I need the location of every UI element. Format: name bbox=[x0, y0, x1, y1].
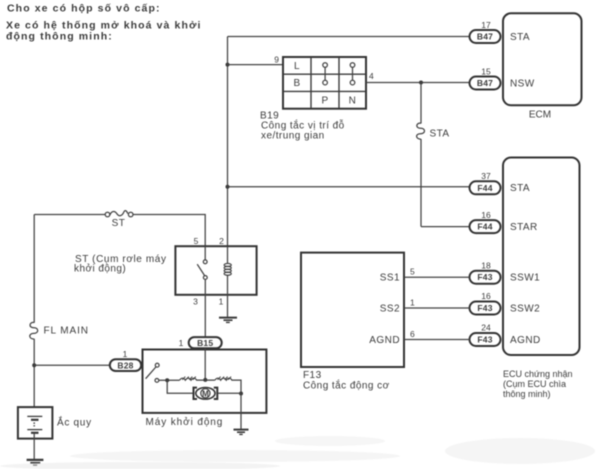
svg-text:STA: STA bbox=[510, 183, 530, 194]
svg-text:B: B bbox=[293, 78, 300, 89]
svg-text:9: 9 bbox=[274, 55, 279, 65]
B19 contact circles column N bbox=[350, 63, 355, 85]
ST relay box bbox=[175, 246, 256, 295]
svg-text:15: 15 bbox=[481, 67, 491, 77]
battery box bbox=[18, 407, 53, 439]
svg-text:F44: F44 bbox=[477, 183, 492, 193]
wire fusible link to battery bbox=[33, 339, 35, 417]
ground under starter bbox=[234, 430, 249, 435]
connector B47 pin 15 bbox=[470, 77, 501, 90]
wire coil1 node to motor bbox=[167, 380, 193, 393]
svg-text:24: 24 bbox=[481, 323, 491, 333]
wire main vertical STA bbox=[227, 37, 229, 247]
svg-text:SS2: SS2 bbox=[380, 303, 400, 314]
node junction at B19 pin 9 bbox=[226, 63, 230, 67]
svg-text:5: 5 bbox=[194, 236, 199, 246]
svg-text:ECM: ECM bbox=[529, 110, 551, 121]
connector B28 bbox=[110, 359, 141, 371]
node motor right bbox=[239, 392, 243, 396]
wire STAR branch lower bbox=[420, 139, 422, 227]
wire node to starter ground bbox=[240, 394, 242, 430]
wire relay pin 3 to B15 bbox=[204, 279, 206, 337]
svg-text:F43: F43 bbox=[477, 303, 492, 313]
connector F43 pin 16 bbox=[470, 302, 501, 315]
ECM box bbox=[503, 13, 582, 105]
wire motor to node bbox=[218, 392, 241, 394]
svg-text:Máy khởi động: Máy khởi động bbox=[146, 416, 224, 428]
svg-text:SS1: SS1 bbox=[380, 273, 400, 284]
node junction B28 branch bbox=[32, 363, 36, 367]
svg-text:1: 1 bbox=[123, 349, 128, 359]
svg-text:AGND: AGND bbox=[369, 335, 400, 346]
svg-text:SSW1: SSW1 bbox=[510, 273, 540, 284]
svg-text:1: 1 bbox=[219, 297, 224, 307]
svg-text:ECU chứng nhận: ECU chứng nhận bbox=[503, 369, 573, 379]
svg-text:M: M bbox=[202, 389, 209, 398]
svg-text:STA: STA bbox=[510, 32, 530, 43]
svg-text:4: 4 bbox=[369, 71, 374, 81]
svg-text:16: 16 bbox=[481, 291, 491, 301]
wire between coils bbox=[196, 379, 215, 381]
svg-text:37: 37 bbox=[481, 171, 491, 181]
wire battery to ground bbox=[33, 433, 35, 460]
svg-text:3: 3 bbox=[193, 297, 198, 307]
svg-text:F44: F44 bbox=[477, 222, 492, 232]
svg-text:N: N bbox=[349, 96, 357, 107]
B19 switch block bbox=[283, 57, 366, 109]
svg-text:F43: F43 bbox=[477, 335, 492, 345]
node junction pin4 / STAR branch bbox=[419, 81, 423, 85]
svg-text:B28: B28 bbox=[117, 360, 133, 370]
connector F43 pin 18 bbox=[470, 271, 501, 284]
svg-text:P: P bbox=[321, 96, 328, 107]
svg-text:khởi động): khởi động) bbox=[74, 263, 126, 275]
svg-text:STAR: STAR bbox=[510, 222, 538, 233]
svg-text:F43: F43 bbox=[477, 272, 492, 282]
flexible wire symbol STA bbox=[417, 123, 425, 139]
svg-text:SSW2: SSW2 bbox=[510, 303, 540, 314]
svg-text:17: 17 bbox=[481, 20, 491, 30]
wire SS1 to F43-18 bbox=[404, 276, 470, 278]
wire AGND to F43-24 bbox=[404, 339, 470, 341]
svg-text:5: 5 bbox=[410, 267, 415, 277]
wire left vertical battery feed bbox=[33, 215, 35, 323]
svg-text:6: 6 bbox=[410, 329, 415, 339]
starter solenoid contact bbox=[146, 363, 160, 382]
scan noise smudges bbox=[0, 436, 595, 469]
wire B28 to starter contact bbox=[141, 364, 155, 366]
wire to B19 pin 9 bbox=[228, 64, 284, 66]
wire to F44-16 STAR bbox=[421, 226, 469, 228]
wire to F44-37 STA bbox=[228, 186, 471, 189]
wire battery feed to fuse ST bbox=[34, 214, 105, 216]
wire fuse ST to relay pin 5 bbox=[133, 215, 205, 247]
svg-text:ST: ST bbox=[112, 218, 126, 229]
svg-text:18: 18 bbox=[481, 260, 491, 270]
B19 contact circles column P bbox=[323, 63, 328, 85]
svg-text:B47: B47 bbox=[477, 32, 493, 42]
svg-text:F13: F13 bbox=[303, 370, 322, 381]
svg-text:2: 2 bbox=[219, 236, 224, 246]
connector B47 pin 17 bbox=[470, 30, 501, 43]
svg-text:động thông minh:: động thông minh: bbox=[6, 31, 113, 43]
svg-text:B47: B47 bbox=[477, 78, 493, 88]
wire coil2 to corner node bbox=[231, 380, 241, 393]
svg-text:Ắc quy: Ắc quy bbox=[57, 415, 92, 428]
wire top STA bus to B47-17 bbox=[228, 36, 471, 38]
connector F44 pin 37 bbox=[470, 181, 501, 194]
wire to connector B28 bbox=[34, 364, 110, 366]
connector F44 pin 16 bbox=[470, 220, 501, 233]
wire SS2 to F43-16 bbox=[404, 307, 470, 309]
node junction main vertical to F44-37 bbox=[226, 185, 230, 189]
starter field coil 1 bbox=[180, 377, 197, 381]
wire contact to node bbox=[159, 379, 180, 381]
wire B19 pin 4 to B47-15 NSW bbox=[366, 82, 469, 84]
connector F43 pin 24 bbox=[470, 333, 501, 346]
wire B15 vertical into starter bbox=[204, 348, 206, 380]
svg-text:STA: STA bbox=[430, 129, 450, 140]
svg-text:NSW: NSW bbox=[510, 79, 535, 90]
svg-text:1: 1 bbox=[179, 338, 184, 348]
F13 box bbox=[301, 253, 404, 367]
starter motor box bbox=[143, 350, 267, 413]
svg-text:B15: B15 bbox=[197, 338, 213, 348]
motor M bbox=[194, 388, 218, 400]
battery cells bbox=[27, 416, 42, 432]
fusible link FL MAIN bbox=[30, 322, 38, 339]
ground under relay coil bbox=[219, 318, 237, 323]
ECU box bbox=[503, 158, 580, 356]
svg-text:thông minh): thông minh) bbox=[503, 389, 551, 399]
node starter junction B15 bbox=[203, 378, 207, 382]
svg-text:FL MAIN: FL MAIN bbox=[44, 326, 89, 337]
svg-text:16: 16 bbox=[481, 210, 491, 220]
relay coil bbox=[224, 246, 231, 317]
connector B15 bbox=[189, 337, 222, 348]
ground under battery bbox=[27, 460, 44, 465]
starter field coil 2 bbox=[215, 377, 232, 381]
svg-text:Cho xe có hộp số vô cấp:: Cho xe có hộp số vô cấp: bbox=[7, 3, 161, 15]
wire STAR branch upper bbox=[420, 83, 422, 124]
relay switch contact bbox=[197, 246, 207, 279]
node starter coil1 left bbox=[165, 378, 169, 382]
svg-text:1: 1 bbox=[410, 298, 415, 308]
svg-text:Công tắc động cơ: Công tắc động cơ bbox=[303, 379, 390, 392]
svg-text:L: L bbox=[294, 61, 300, 72]
svg-text:xe/trung gian: xe/trung gian bbox=[261, 131, 325, 142]
fuse ST bbox=[105, 211, 133, 217]
svg-text:(Cụm ECU chìa: (Cụm ECU chìa bbox=[503, 379, 566, 389]
svg-text:AGND: AGND bbox=[510, 335, 541, 346]
